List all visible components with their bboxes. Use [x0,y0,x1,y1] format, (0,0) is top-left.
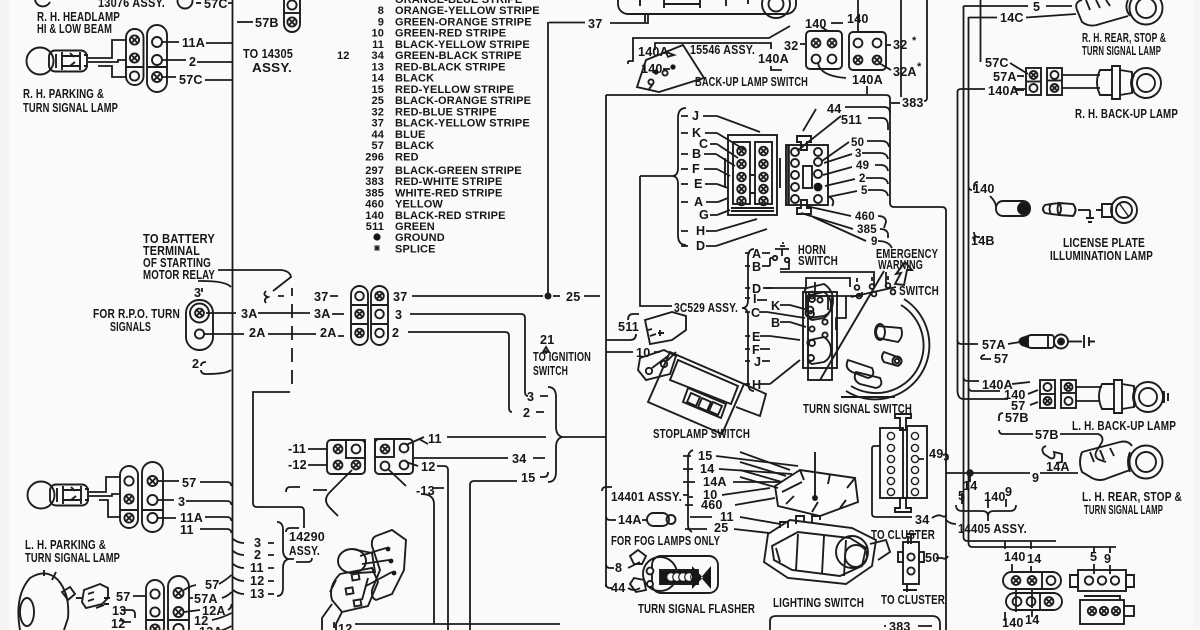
svg-text:BLACK-YELLOW STRIPE: BLACK-YELLOW STRIPE [395,118,530,130]
svg-text:TO IGNITION: TO IGNITION [533,350,591,364]
svg-text:L. H. BACK-UP LAMP: L. H. BACK-UP LAMP [1072,419,1176,433]
svg-text:BLACK-GREEN STRIPE: BLACK-GREEN STRIPE [395,165,522,177]
svg-text:13076 ASSY.: 13076 ASSY. [98,0,165,10]
svg-text:TO CLUSTER: TO CLUSTER [871,528,935,542]
svg-text:11: 11 [428,432,442,446]
svg-text:14290: 14290 [289,530,325,544]
svg-text:3: 3 [855,148,862,160]
svg-text:RED-BLACK STRIPE: RED-BLACK STRIPE [395,61,506,73]
svg-text:E: E [694,177,703,191]
svg-text:F: F [692,162,700,176]
svg-text:BLACK-YELLOW STRIPE: BLACK-YELLOW STRIPE [395,39,530,51]
svg-text:8: 8 [615,561,622,575]
svg-text:5: 5 [1033,0,1040,14]
svg-text:12: 12 [337,50,350,62]
svg-text:383: 383 [889,620,911,630]
svg-text:140: 140 [1004,550,1026,564]
svg-text:140: 140 [365,210,384,222]
svg-text:57B: 57B [1035,428,1059,442]
svg-text:3: 3 [178,495,185,509]
svg-text:44: 44 [371,129,384,141]
svg-text:12: 12 [421,460,435,474]
svg-text:WARNING: WARNING [878,258,923,272]
svg-text:R. H. REAR, STOP &: R. H. REAR, STOP & [1082,31,1166,45]
svg-text:12: 12 [111,617,125,630]
svg-text:32: 32 [784,39,798,53]
svg-text:B: B [752,260,761,274]
svg-text:13: 13 [250,587,264,601]
svg-text:57C: 57C [179,73,203,87]
svg-text:L. H. PARKING &: L. H. PARKING & [25,538,106,552]
svg-text:RED: RED [395,151,419,163]
svg-text:R. H. PARKING &: R. H. PARKING & [23,87,104,101]
svg-text:49: 49 [856,160,869,172]
svg-text:140A: 140A [852,73,883,87]
svg-text:57: 57 [371,140,384,152]
svg-text:HI & LOW BEAM: HI & LOW BEAM [37,22,112,36]
svg-text:H: H [696,224,705,238]
svg-text:34: 34 [371,50,384,62]
svg-text:ASSY.: ASSY. [252,61,292,75]
svg-text:57B: 57B [255,16,279,30]
svg-text:383: 383 [365,176,384,188]
svg-text:BACK-UP LAMP SWITCH: BACK-UP LAMP SWITCH [695,75,808,89]
svg-text:*: * [917,61,922,73]
svg-text:C: C [751,306,760,320]
svg-text:25: 25 [714,521,728,535]
svg-text:2: 2 [254,548,261,562]
svg-text:GREEN-RED STRIPE: GREEN-RED STRIPE [395,28,506,40]
svg-text:GREEN: GREEN [395,221,435,233]
svg-text:57C: 57C [204,0,228,11]
svg-text:BLACK: BLACK [395,140,434,152]
svg-text:57C: 57C [985,56,1009,70]
svg-text:9: 9 [1104,552,1111,566]
svg-text:34: 34 [512,452,526,466]
svg-text:RED-BLUE STRIPE: RED-BLUE STRIPE [395,106,497,118]
svg-text:12: 12 [338,622,352,630]
svg-text:K: K [771,299,780,313]
svg-text:A: A [694,195,703,209]
svg-text:LICENSE PLATE: LICENSE PLATE [1063,236,1145,250]
svg-text:14: 14 [371,73,384,85]
svg-text:12: 12 [250,574,264,588]
svg-text:B: B [771,316,780,330]
svg-text:13A: 13A [199,625,223,630]
svg-text:TURN SIGNAL LAMP: TURN SIGNAL LAMP [25,551,120,565]
svg-text:57: 57 [994,352,1008,366]
svg-text:B: B [692,147,701,161]
svg-text:511: 511 [366,221,384,233]
svg-text:57: 57 [205,578,219,592]
svg-text:14: 14 [1027,552,1041,566]
svg-text:ASSY.: ASSY. [289,544,320,558]
svg-text:11A: 11A [182,36,205,50]
svg-text:460: 460 [365,199,384,211]
svg-text:2A: 2A [249,326,266,340]
svg-text:3: 3 [395,308,402,322]
svg-text:I: I [753,292,757,306]
svg-text:15: 15 [521,471,535,485]
svg-text:TURN SIGNAL LAMP: TURN SIGNAL LAMP [1084,503,1163,517]
svg-text:BLACK-ORANGE STRIPE: BLACK-ORANGE STRIPE [395,95,531,107]
svg-text:34: 34 [915,513,929,527]
svg-text:SIGNALS: SIGNALS [110,320,151,334]
svg-text:11: 11 [372,39,384,51]
svg-text:BLACK: BLACK [395,73,434,85]
svg-text:57A: 57A [993,70,1017,84]
svg-text:2: 2 [192,357,199,371]
svg-text:8: 8 [378,5,384,17]
svg-text:2: 2 [392,326,399,340]
svg-text:SWITCH: SWITCH [533,364,568,378]
svg-text:TURN SIGNAL LAMP: TURN SIGNAL LAMP [1082,44,1161,58]
svg-text:YELLOW: YELLOW [395,199,443,211]
svg-text:14401 ASSY.: 14401 ASSY. [611,490,682,504]
svg-text:13: 13 [112,604,126,618]
svg-text:140A: 140A [988,84,1019,98]
svg-text:J: J [754,355,761,369]
svg-text:2: 2 [189,55,196,69]
svg-text:-12: -12 [288,458,307,472]
svg-text:14A: 14A [703,475,727,489]
svg-text:2A: 2A [320,326,337,340]
svg-text:511: 511 [618,320,639,334]
svg-text:49: 49 [929,447,943,461]
svg-text:296: 296 [365,151,384,163]
svg-text:-13: -13 [416,484,435,498]
svg-text:SWITCH: SWITCH [798,254,838,268]
svg-text:57B: 57B [1005,411,1029,425]
svg-text:FOR FOG LAMPS ONLY: FOR FOG LAMPS ONLY [611,534,720,548]
svg-text:J: J [692,109,699,123]
svg-text:11: 11 [180,523,194,537]
svg-text:14: 14 [700,462,714,476]
svg-text:3: 3 [527,390,534,404]
svg-text:9: 9 [378,16,384,28]
svg-text:TO 14305: TO 14305 [243,47,293,61]
svg-text:385: 385 [365,187,384,199]
svg-text:15546 ASSY.: 15546 ASSY. [690,43,755,57]
svg-text:3A: 3A [241,307,258,321]
svg-text:37: 37 [393,290,407,304]
svg-text:57: 57 [182,476,196,490]
svg-text:21: 21 [540,333,554,347]
svg-text:15: 15 [698,449,712,463]
svg-text:14405 ASSY.: 14405 ASSY. [958,522,1027,536]
svg-text:3A: 3A [314,307,331,321]
svg-text:140: 140 [973,182,995,196]
svg-text:R. H. BACK-UP LAMP: R. H. BACK-UP LAMP [1075,107,1178,121]
svg-text:D: D [696,239,705,253]
svg-text:2: 2 [859,173,866,185]
svg-text:32: 32 [371,106,384,118]
svg-text:10: 10 [371,28,384,40]
svg-text:SWITCH: SWITCH [899,284,939,298]
svg-text:383: 383 [902,96,924,110]
svg-text:WHITE-RED STRIPE: WHITE-RED STRIPE [395,187,503,199]
svg-text:32A: 32A [893,65,917,79]
svg-text:385: 385 [857,224,877,236]
svg-text:GROUND: GROUND [395,232,445,244]
svg-text:FOR R.P.O. TURN: FOR R.P.O. TURN [93,307,180,321]
svg-text:G: G [699,208,709,222]
svg-text:GREEN-BLACK STRIPE: GREEN-BLACK STRIPE [395,50,522,62]
svg-text:E: E [752,330,761,344]
svg-text:37: 37 [314,290,328,304]
svg-text:LIGHTING SWITCH: LIGHTING SWITCH [773,596,864,610]
svg-text:11: 11 [250,561,264,575]
svg-text:25: 25 [566,290,580,304]
svg-text:L. H. REAR, STOP &: L. H. REAR, STOP & [1082,490,1182,504]
svg-text:14C: 14C [1000,11,1024,25]
svg-text:460: 460 [855,211,875,223]
svg-text:TO CLUSTER: TO CLUSTER [881,593,945,607]
svg-text:37: 37 [371,118,384,130]
svg-text:*: * [912,35,917,47]
svg-text:GREEN-ORANGE STRIPE: GREEN-ORANGE STRIPE [395,16,532,28]
svg-text:MOTOR RELAY: MOTOR RELAY [143,268,215,282]
svg-text:2: 2 [523,406,530,420]
svg-text:15: 15 [371,84,384,96]
svg-text:14A: 14A [618,513,642,527]
svg-text:ORANGE-YELLOW STRIPE: ORANGE-YELLOW STRIPE [395,5,540,17]
svg-text:511: 511 [841,113,862,127]
svg-text:BLUE: BLUE [395,129,426,141]
svg-text:13: 13 [371,61,384,73]
svg-text:5: 5 [861,185,868,197]
svg-text:3: 3 [194,286,201,300]
svg-text:9: 9 [1005,485,1012,499]
svg-text:57: 57 [116,590,130,604]
svg-text:25: 25 [371,95,384,107]
svg-text:9: 9 [1032,471,1039,485]
svg-text:44: 44 [611,581,625,595]
svg-text:3C529 ASSY.: 3C529 ASSY. [674,301,738,315]
svg-text:TURN SIGNAL LAMP: TURN SIGNAL LAMP [23,101,118,115]
svg-text:37: 37 [588,17,602,31]
svg-text:RED-YELLOW STRIPE: RED-YELLOW STRIPE [395,84,514,96]
svg-text:SPLICE: SPLICE [395,243,436,255]
svg-text:44: 44 [827,102,841,116]
svg-text:-11: -11 [288,442,306,456]
svg-text:57A: 57A [982,338,1006,352]
svg-text:ILLUMINATION LAMP: ILLUMINATION LAMP [1050,249,1153,263]
svg-text:RED-WHITE STRIPE: RED-WHITE STRIPE [395,176,503,188]
svg-text:BLACK-RED STRIPE: BLACK-RED STRIPE [395,210,506,222]
svg-text:TURN SIGNAL FLASHER: TURN SIGNAL FLASHER [638,602,755,616]
svg-text:140A: 140A [758,52,789,66]
svg-text:297: 297 [365,165,384,177]
svg-text:STOPLAMP SWITCH: STOPLAMP SWITCH [653,427,750,441]
